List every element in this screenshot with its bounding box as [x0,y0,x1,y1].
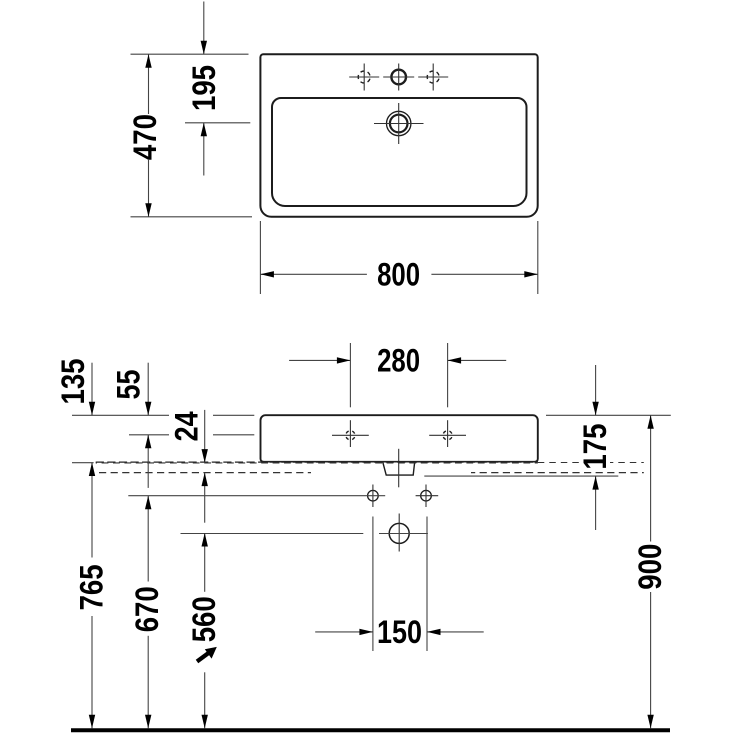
svg-text:24: 24 [169,411,205,441]
svg-text:670: 670 [129,586,165,632]
svg-text:560: 560 [186,596,222,642]
svg-text:175: 175 [577,424,613,470]
svg-text:150: 150 [377,614,422,650]
svg-text:55: 55 [111,370,147,400]
svg-text:135: 135 [55,359,91,405]
svg-text:470: 470 [127,114,163,160]
svg-text:800: 800 [377,256,420,292]
svg-text:280: 280 [377,342,420,378]
svg-text:765: 765 [73,564,109,610]
svg-text:195: 195 [186,65,222,111]
svg-text:900: 900 [632,544,668,590]
